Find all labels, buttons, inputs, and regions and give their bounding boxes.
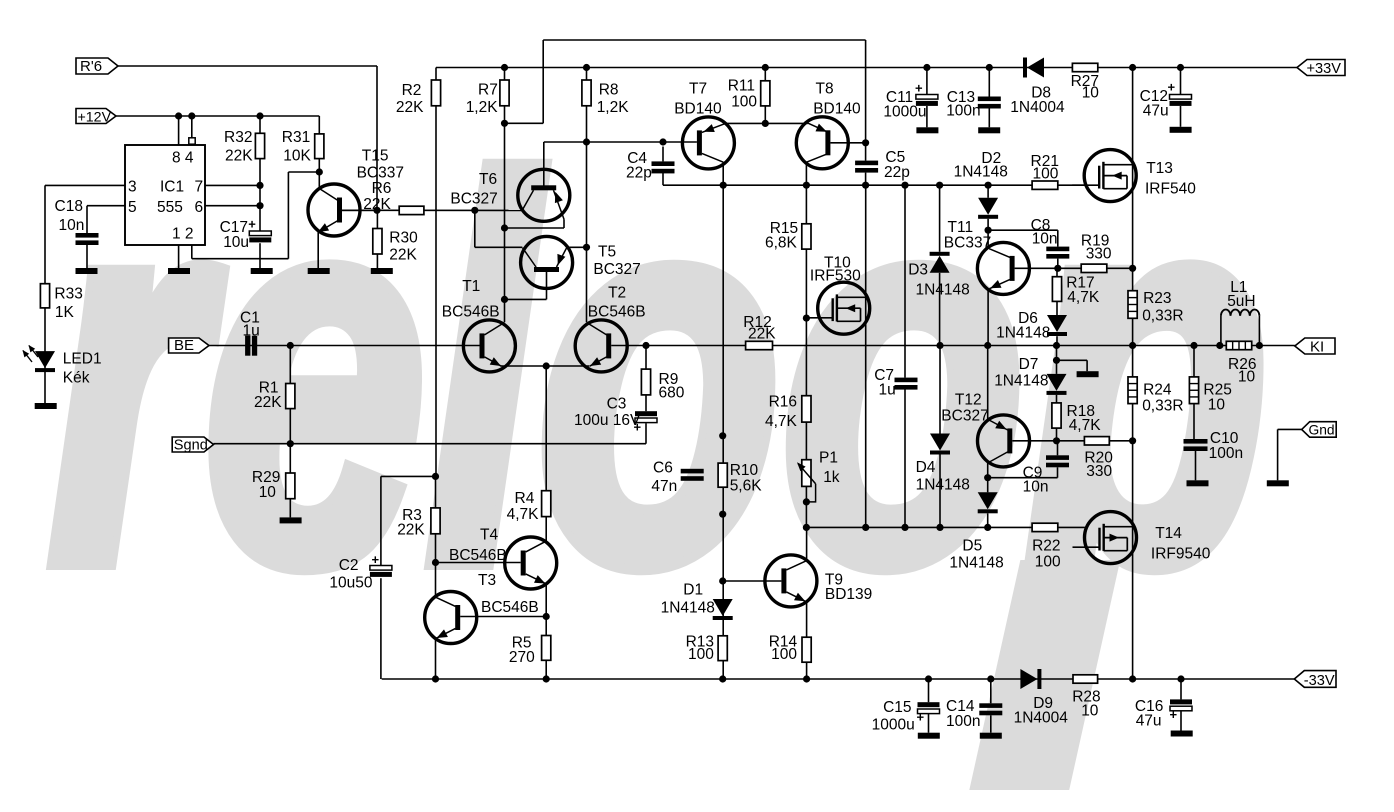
wire bbox=[544, 141, 697, 143]
capacitor C11 1000u bbox=[916, 95, 938, 100]
transistor T15 BC337 bbox=[308, 184, 360, 236]
wire bbox=[1132, 68, 1134, 680]
svg-text:10n: 10n bbox=[1032, 231, 1058, 248]
svg-text:R2: R2 bbox=[402, 82, 422, 99]
wire bbox=[1086, 360, 1088, 371]
wire bbox=[435, 563, 437, 598]
svg-text:1,2K: 1,2K bbox=[466, 99, 499, 116]
svg-text:BD140: BD140 bbox=[813, 101, 861, 118]
capacitor C9 10n bbox=[1046, 455, 1069, 460]
wire bbox=[380, 578, 382, 679]
resistor R15 6,8K bbox=[802, 224, 811, 249]
ground C17 bbox=[251, 268, 273, 274]
wire bbox=[178, 245, 180, 268]
port tag BE bbox=[169, 338, 209, 353]
wire bbox=[289, 346, 291, 384]
svg-text:Kék: Kék bbox=[63, 370, 90, 387]
resistor R6 22K bbox=[399, 206, 424, 214]
svg-text:1N4148: 1N4148 bbox=[916, 477, 970, 494]
resistor R32 22K bbox=[255, 133, 264, 158]
wire bbox=[436, 562, 521, 564]
wire bbox=[805, 162, 807, 528]
wire bbox=[436, 67, 1297, 69]
decorative watermark bbox=[48, 71, 1269, 790]
resistor R22 100 bbox=[1032, 523, 1058, 531]
wire bbox=[474, 210, 476, 247]
svg-text:330: 330 bbox=[1086, 463, 1112, 480]
capacitor C8 10n bbox=[1046, 247, 1069, 252]
IC1 pin 4 inverter circle bbox=[189, 138, 195, 144]
wire bbox=[209, 345, 480, 347]
wire bbox=[928, 714, 930, 733]
svg-text:1N4148: 1N4148 bbox=[994, 373, 1048, 390]
resistor R17 4,7K bbox=[1052, 277, 1061, 302]
port tag Sgnd bbox=[172, 437, 213, 452]
transistor T9 BD139 bbox=[765, 555, 817, 607]
svg-text:BD139: BD139 bbox=[825, 586, 872, 603]
wire bbox=[1220, 316, 1222, 346]
svg-text:T11: T11 bbox=[948, 219, 974, 236]
wire bbox=[990, 715, 992, 732]
svg-text:1u: 1u bbox=[879, 382, 896, 399]
wire bbox=[939, 455, 941, 528]
svg-text:22K: 22K bbox=[225, 148, 253, 165]
capacitor C4 22p bbox=[652, 161, 675, 166]
svg-text:+: + bbox=[372, 552, 380, 567]
svg-text:47u: 47u bbox=[1136, 713, 1162, 730]
resistor R1 22K bbox=[286, 384, 295, 409]
svg-text:BC546B: BC546B bbox=[449, 547, 507, 564]
svg-text:R7: R7 bbox=[478, 82, 498, 99]
wire bbox=[987, 230, 989, 248]
wire bbox=[545, 660, 547, 679]
svg-text:10: 10 bbox=[259, 484, 277, 501]
svg-text:Sgnd: Sgnd bbox=[174, 437, 208, 453]
wire bbox=[86, 206, 88, 233]
transistor T11 BC337 bbox=[977, 242, 1029, 294]
wire bbox=[287, 172, 289, 259]
wire bbox=[662, 147, 664, 162]
ground C11 bbox=[916, 127, 938, 133]
svg-text:5uH: 5uH bbox=[1227, 293, 1255, 310]
svg-text:R11: R11 bbox=[728, 78, 755, 95]
svg-text:D3: D3 bbox=[908, 262, 928, 279]
svg-text:10K: 10K bbox=[283, 148, 311, 165]
svg-text:C3: C3 bbox=[607, 396, 627, 413]
resistor R28 10 bbox=[1073, 675, 1098, 683]
wire bbox=[214, 443, 647, 445]
svg-text:1 2: 1 2 bbox=[172, 226, 194, 243]
wire bbox=[505, 227, 565, 229]
svg-text:10n: 10n bbox=[59, 217, 85, 234]
svg-text:R23: R23 bbox=[1143, 290, 1171, 307]
transistor T8 BD140 bbox=[796, 117, 848, 169]
wire bbox=[1193, 346, 1195, 377]
svg-text:R22: R22 bbox=[1032, 538, 1060, 555]
wire bbox=[939, 185, 941, 252]
svg-text:0,33R: 0,33R bbox=[1142, 308, 1183, 325]
svg-text:R33: R33 bbox=[54, 286, 82, 303]
resistor R19 330 bbox=[1081, 264, 1107, 272]
svg-text:5,6K: 5,6K bbox=[730, 478, 763, 495]
transistor T12 BC327 bbox=[978, 415, 1030, 467]
svg-text:R4: R4 bbox=[515, 490, 535, 507]
wire bbox=[567, 246, 587, 248]
capacitor C6 47n bbox=[681, 469, 704, 474]
resistor R23 0,33R bbox=[1128, 291, 1137, 319]
wire bbox=[1278, 428, 1302, 430]
svg-text:6,8K: 6,8K bbox=[765, 235, 798, 252]
svg-text:D1: D1 bbox=[683, 582, 703, 599]
wire bbox=[806, 662, 808, 679]
diode D5 1N4148 bbox=[978, 492, 998, 509]
wire bbox=[259, 116, 261, 231]
ground C10 bbox=[1187, 480, 1209, 486]
capacitor C18 10n bbox=[76, 233, 99, 238]
svg-text:1N4148: 1N4148 bbox=[661, 600, 715, 617]
svg-text:BC546B: BC546B bbox=[588, 304, 646, 321]
resistor R16 4,7K bbox=[802, 396, 811, 422]
diode D9 1N4004 bbox=[1020, 669, 1037, 689]
svg-text:22K: 22K bbox=[748, 326, 776, 343]
resistor R9 680 bbox=[641, 369, 650, 395]
wire bbox=[586, 68, 588, 323]
wire bbox=[645, 395, 647, 411]
svg-text:BE: BE bbox=[174, 337, 194, 354]
capacitor C2 10u50 bbox=[370, 566, 392, 571]
wire bbox=[988, 477, 1058, 479]
diode D7 1N4148 bbox=[1047, 374, 1067, 391]
svg-text:4,7K: 4,7K bbox=[1067, 289, 1100, 306]
resistor R31 10K bbox=[315, 134, 324, 159]
svg-text:10n: 10n bbox=[1023, 479, 1049, 496]
wire bbox=[865, 40, 867, 161]
svg-text:10: 10 bbox=[1081, 703, 1099, 720]
svg-text:T3: T3 bbox=[478, 572, 496, 589]
resistor R5 270 bbox=[542, 636, 551, 661]
capacitor C5 22p bbox=[855, 161, 878, 166]
wire bbox=[376, 66, 378, 210]
svg-text:10: 10 bbox=[1208, 397, 1226, 414]
ground LED1 bbox=[35, 403, 57, 409]
ground C18 bbox=[76, 268, 98, 274]
ground C15 bbox=[918, 733, 940, 739]
svg-text:1N4004: 1N4004 bbox=[1014, 710, 1069, 727]
wire bbox=[926, 106, 928, 127]
wire bbox=[259, 243, 261, 268]
wire bbox=[1258, 316, 1260, 346]
resistor R20 330 bbox=[1084, 437, 1109, 445]
wire bbox=[1057, 441, 1059, 456]
wire bbox=[987, 463, 989, 493]
resistor R3 22K bbox=[431, 508, 440, 534]
MOSFET T14 IRF9540 bbox=[1085, 512, 1137, 564]
port tag +33V bbox=[1297, 60, 1345, 76]
resistor R26 10 bbox=[1226, 341, 1251, 349]
wire bbox=[1180, 679, 1182, 699]
wire bbox=[987, 289, 989, 346]
svg-text:1N4148: 1N4148 bbox=[949, 555, 1003, 572]
resistor R24 0,33R bbox=[1128, 377, 1137, 404]
wire bbox=[435, 476, 437, 508]
svg-text:1u: 1u bbox=[243, 323, 260, 340]
svg-text:1N4004: 1N4004 bbox=[1010, 99, 1065, 116]
wire bbox=[435, 639, 437, 680]
wire bbox=[990, 679, 992, 703]
wire bbox=[1057, 230, 1059, 246]
wire bbox=[191, 116, 193, 145]
svg-text:4,7K: 4,7K bbox=[1069, 417, 1102, 434]
svg-text:T15: T15 bbox=[362, 148, 389, 165]
wire bbox=[727, 122, 808, 124]
svg-text:100n: 100n bbox=[946, 103, 980, 120]
svg-text:T14: T14 bbox=[1155, 525, 1182, 542]
diode D1 1N4148 bbox=[713, 599, 733, 616]
svg-text:LED1: LED1 bbox=[63, 351, 102, 368]
svg-text:+: + bbox=[917, 710, 925, 725]
wire bbox=[928, 679, 930, 702]
wire bbox=[205, 205, 260, 207]
svg-text:1N4148: 1N4148 bbox=[996, 325, 1050, 342]
capacitor C10 100n bbox=[1184, 439, 1208, 444]
svg-text:10: 10 bbox=[1238, 369, 1256, 386]
svg-text:8 4: 8 4 bbox=[172, 150, 194, 167]
resistor R7 1,2K bbox=[500, 80, 509, 106]
svg-text:100: 100 bbox=[771, 646, 797, 663]
diode D2 1N4148 bbox=[978, 198, 998, 215]
ground R30 bbox=[371, 268, 393, 274]
svg-text:22K: 22K bbox=[389, 247, 417, 264]
wire bbox=[377, 209, 522, 211]
wire bbox=[545, 517, 547, 541]
wire bbox=[764, 106, 766, 124]
capacitor C7 1u bbox=[895, 378, 918, 383]
svg-text:3: 3 bbox=[128, 179, 137, 196]
resistor R21 100 bbox=[1032, 181, 1058, 189]
resistor R25 10 bbox=[1189, 377, 1198, 404]
MOSFET T10 IRF530 bbox=[818, 282, 870, 334]
svg-text:R6: R6 bbox=[372, 180, 392, 197]
svg-text:1k: 1k bbox=[823, 469, 840, 486]
IC1 labels and pin numbers bbox=[128, 150, 203, 243]
ground C12 bbox=[1170, 127, 1192, 133]
wire bbox=[318, 116, 320, 188]
svg-text:IRF9540: IRF9540 bbox=[1151, 546, 1211, 563]
resistor R12 22K bbox=[746, 341, 773, 349]
wire bbox=[543, 142, 545, 186]
capacitor C16 47u bbox=[1170, 699, 1192, 704]
wire bbox=[939, 273, 941, 346]
resistor R30 22K bbox=[373, 229, 382, 255]
svg-text:100n: 100n bbox=[946, 713, 980, 730]
svg-text:22p: 22p bbox=[884, 164, 910, 181]
transistor T6 BC327 bbox=[518, 169, 570, 221]
svg-text:1000u: 1000u bbox=[872, 717, 915, 734]
svg-text:C15: C15 bbox=[883, 699, 911, 716]
svg-text:T6: T6 bbox=[479, 171, 497, 188]
ground D7 node bbox=[1077, 371, 1099, 377]
resistor R14 100 bbox=[802, 637, 811, 662]
wire bbox=[1056, 268, 1058, 276]
ground C16 bbox=[1171, 731, 1193, 737]
svg-text:IRF530: IRF530 bbox=[810, 268, 861, 285]
svg-text:1N4148: 1N4148 bbox=[916, 282, 970, 299]
potentiometer P1 1k bbox=[802, 460, 811, 487]
svg-text:D7: D7 bbox=[1019, 356, 1039, 373]
wire bbox=[645, 346, 647, 370]
wire bbox=[865, 173, 867, 186]
capacitor C17 10u bbox=[249, 231, 271, 236]
svg-text:100: 100 bbox=[1035, 554, 1061, 571]
wire bbox=[460, 616, 546, 618]
wire bbox=[904, 185, 906, 377]
wire bbox=[987, 185, 989, 198]
wire bbox=[1057, 467, 1059, 477]
svg-text:1000u: 1000u bbox=[883, 104, 926, 121]
capacitor C1 1u bbox=[245, 336, 250, 356]
wire bbox=[926, 68, 928, 95]
wire bbox=[1015, 267, 1133, 269]
svg-text:1,2K: 1,2K bbox=[597, 99, 630, 116]
resistor R13 100 bbox=[718, 636, 727, 661]
svg-text:6: 6 bbox=[195, 199, 204, 216]
wire bbox=[764, 68, 766, 81]
port tag KI bbox=[1295, 338, 1335, 354]
wire bbox=[1056, 428, 1058, 441]
svg-text:10u50: 10u50 bbox=[329, 575, 372, 592]
svg-text:T4: T4 bbox=[480, 527, 498, 544]
svg-text:+12V: +12V bbox=[78, 109, 112, 125]
wire bbox=[435, 68, 437, 477]
resistor R11 100 bbox=[761, 81, 770, 106]
wire bbox=[1056, 301, 1058, 315]
svg-text:BC546B: BC546B bbox=[442, 304, 500, 321]
wire bbox=[317, 232, 319, 268]
svg-text:47n: 47n bbox=[651, 478, 677, 495]
port tag R'6 bbox=[76, 58, 118, 74]
wire bbox=[475, 246, 523, 248]
transistor T1 BC546B bbox=[463, 320, 515, 372]
svg-text:100: 100 bbox=[731, 94, 757, 111]
wire bbox=[1056, 395, 1058, 403]
svg-text:4,7K: 4,7K bbox=[765, 413, 798, 430]
wire bbox=[988, 109, 990, 128]
svg-text:4,7K: 4,7K bbox=[507, 506, 540, 523]
wire bbox=[987, 346, 989, 420]
svg-text:BC327: BC327 bbox=[593, 261, 640, 278]
capacitor C3 100u 16V bbox=[635, 411, 657, 416]
wire bbox=[645, 423, 647, 444]
wire bbox=[382, 678, 1295, 680]
wire bbox=[1277, 429, 1279, 480]
wire bbox=[662, 173, 664, 185]
wire bbox=[505, 298, 547, 300]
svg-text:270: 270 bbox=[509, 649, 535, 666]
wire bbox=[988, 68, 990, 97]
resistor R10 5,6K bbox=[718, 463, 727, 487]
svg-text:7: 7 bbox=[195, 179, 204, 196]
svg-text:BC337: BC337 bbox=[357, 165, 404, 182]
transistor T7 BD140 bbox=[682, 117, 734, 169]
wire bbox=[44, 185, 46, 403]
wire bbox=[546, 272, 548, 300]
wire bbox=[806, 526, 1085, 528]
svg-text:Gnd: Gnd bbox=[1309, 423, 1335, 438]
svg-text:R24: R24 bbox=[1143, 382, 1172, 399]
wire bbox=[563, 219, 565, 228]
wire bbox=[542, 40, 544, 123]
svg-text:BC546B: BC546B bbox=[481, 599, 539, 616]
svg-text:T8: T8 bbox=[816, 81, 834, 98]
wire bbox=[939, 346, 941, 434]
svg-text:10u: 10u bbox=[223, 234, 249, 251]
svg-text:5: 5 bbox=[128, 199, 137, 216]
resistor R18 4,7K bbox=[1052, 403, 1061, 428]
transistor T2 BC546B bbox=[575, 320, 627, 372]
wire bbox=[191, 245, 193, 259]
wire bbox=[806, 527, 808, 560]
svg-text:555: 555 bbox=[157, 199, 183, 216]
svg-text:BD140: BD140 bbox=[674, 101, 722, 118]
wire bbox=[1180, 68, 1182, 95]
svg-text:100: 100 bbox=[688, 646, 714, 663]
capacitor C15 1000u bbox=[918, 702, 940, 707]
capacitor C13 100n bbox=[978, 97, 1001, 102]
wire bbox=[192, 258, 289, 260]
MOSFET T13 IRF540 bbox=[1084, 150, 1136, 202]
wire bbox=[545, 366, 547, 491]
diode D3 1N4148 bbox=[930, 256, 950, 273]
ground R29 bbox=[280, 517, 302, 523]
svg-text:R'6: R'6 bbox=[80, 58, 102, 75]
wire bbox=[87, 205, 125, 207]
ground IC1 pin1 bbox=[168, 268, 190, 274]
svg-text:BC327: BC327 bbox=[450, 191, 497, 208]
svg-text:680: 680 bbox=[659, 385, 685, 402]
wire bbox=[505, 122, 544, 124]
wire bbox=[611, 345, 1295, 347]
wire bbox=[342, 209, 377, 211]
svg-text:BC327: BC327 bbox=[941, 408, 988, 425]
wire bbox=[663, 184, 1085, 186]
svg-text:KI: KI bbox=[1310, 339, 1324, 356]
wire bbox=[1056, 346, 1058, 374]
resistor R4 4,7K bbox=[542, 491, 551, 517]
resistor R8 1,2K bbox=[582, 80, 591, 106]
wire bbox=[987, 513, 989, 527]
wire bbox=[289, 499, 291, 518]
port tag +12V bbox=[76, 109, 116, 124]
capacitor C12 47u bbox=[1170, 95, 1192, 100]
svg-text:1N4148: 1N4148 bbox=[954, 164, 1008, 181]
wire bbox=[1193, 404, 1195, 439]
svg-text:D4: D4 bbox=[916, 459, 936, 476]
svg-text:C2: C2 bbox=[339, 557, 359, 574]
svg-text:IRF540: IRF540 bbox=[1145, 181, 1196, 198]
svg-text:100: 100 bbox=[1033, 166, 1059, 183]
wire bbox=[504, 68, 506, 323]
svg-text:R32: R32 bbox=[224, 129, 252, 146]
svg-text:D5: D5 bbox=[962, 538, 982, 555]
transistor T5 BC327 bbox=[521, 236, 573, 288]
wire bbox=[435, 534, 437, 563]
wire bbox=[1180, 106, 1182, 127]
wire bbox=[722, 162, 724, 679]
svg-text:T2: T2 bbox=[608, 285, 626, 302]
capacitor C14 100n bbox=[979, 703, 1002, 708]
wire bbox=[987, 219, 989, 230]
wire bbox=[830, 142, 865, 144]
